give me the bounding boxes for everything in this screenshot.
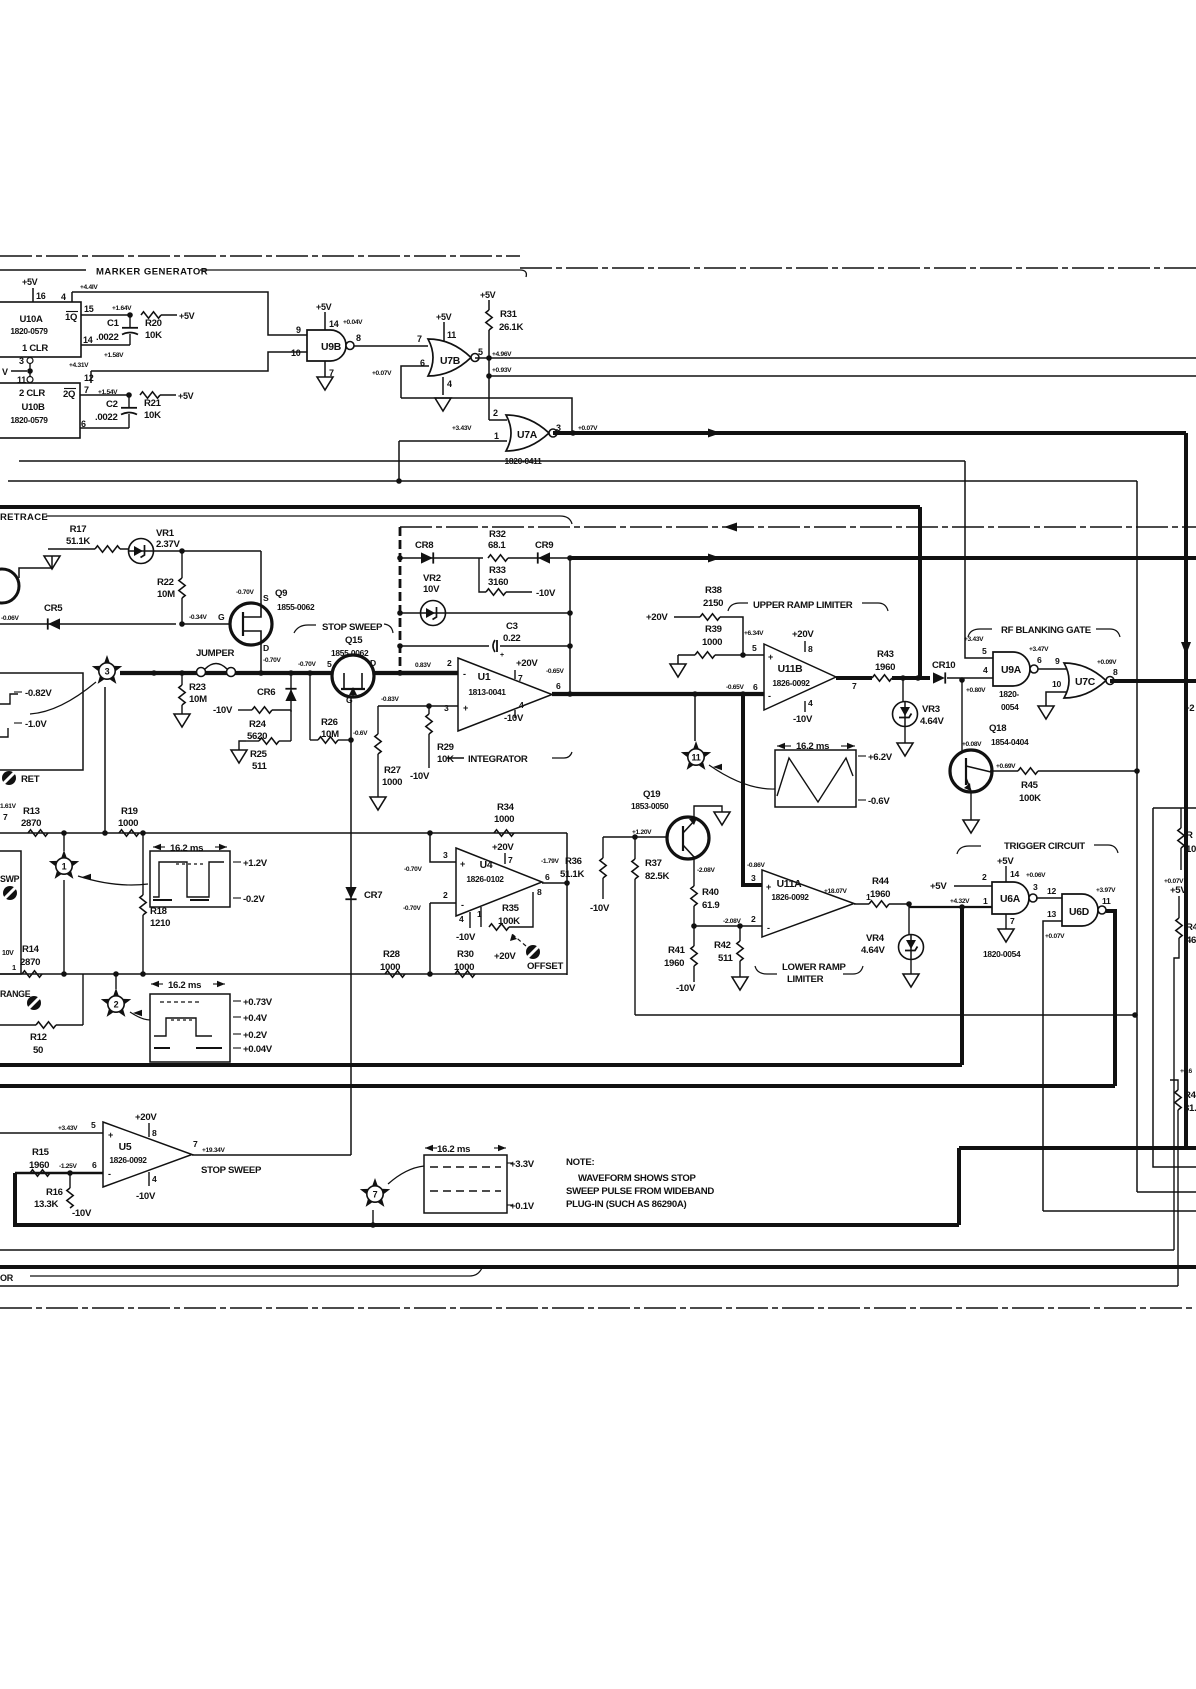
svg-text:16.2 ms: 16.2 ms <box>437 1144 470 1155</box>
svg-text:U10A: U10A <box>19 314 43 325</box>
svg-text:7: 7 <box>373 1189 378 1199</box>
svg-text:-0.70V: -0.70V <box>404 866 423 873</box>
thick line y1086 <box>0 1084 1115 1088</box>
svg-text:1.61V: 1.61V <box>0 803 17 810</box>
svg-text:R21: R21 <box>144 398 162 409</box>
offset adjust <box>526 945 540 959</box>
node dot bus2 x430 <box>427 971 433 977</box>
svg-text:VR1: VR1 <box>156 528 175 539</box>
svg-text:2870: 2870 <box>20 957 40 968</box>
node dot U4 out <box>564 880 570 886</box>
U7B pin 4 lead <box>442 377 444 395</box>
diode CR5 <box>0 623 176 625</box>
wire Q9 source up <box>260 551 262 603</box>
arrow on U7A output line <box>708 429 721 438</box>
U7A feedback loop wire <box>401 398 572 433</box>
svg-text:2.37V: 2.37V <box>156 539 180 550</box>
diode CR10 <box>933 672 945 683</box>
Q19 emitter R40 <box>693 856 695 886</box>
svg-text:RANGE: RANGE <box>0 989 31 999</box>
svg-text:6: 6 <box>81 419 86 429</box>
svg-text:16.2 ms: 16.2 ms <box>796 741 829 752</box>
U7A pin 1 wire <box>399 440 507 442</box>
resistor R43 <box>836 676 872 680</box>
zener VR1 <box>129 539 154 564</box>
svg-text:+20V: +20V <box>646 612 668 623</box>
svg-text:51.1K: 51.1K <box>66 536 90 547</box>
wire VR2 line <box>400 612 420 614</box>
Q19 collector bracket ground <box>694 806 722 820</box>
svg-text:10: 10 <box>1052 679 1061 689</box>
wire +1.20V base line <box>603 836 667 838</box>
resistor R12 <box>0 1024 36 1026</box>
svg-text:1826-0092: 1826-0092 <box>771 892 809 902</box>
svg-text:5: 5 <box>327 659 332 669</box>
svg-text:1 CLR: 1 CLR <box>22 343 48 354</box>
svg-text:+5V: +5V <box>480 290 496 300</box>
svg-text:CR8: CR8 <box>415 540 434 551</box>
svg-text:+0.04V: +0.04V <box>343 319 363 326</box>
svg-text:68.1: 68.1 <box>488 540 506 551</box>
thin line y1250 <box>0 1249 1174 1251</box>
dash-dot line y527 <box>400 526 1196 528</box>
svg-text:C1: C1 <box>107 318 120 329</box>
resistor R15 on pin6 wire <box>30 1170 50 1176</box>
retrace label line <box>46 516 572 524</box>
wire U6A out to U6D <box>1036 897 1062 899</box>
node dot bus1 x143 <box>140 830 146 836</box>
svg-text:R25: R25 <box>250 749 268 760</box>
thick line y1065 <box>0 1063 962 1067</box>
node dot x400 y558 <box>397 555 403 561</box>
box4 labels <box>507 1162 513 1164</box>
svg-text:4: 4 <box>447 379 452 389</box>
svg-text:SWEEP PULSE FROM WIDEBAND: SWEEP PULSE FROM WIDEBAND <box>566 1186 714 1197</box>
node dot U1 out x743 <box>740 691 746 697</box>
resistor R19 on bus1 <box>119 830 139 836</box>
svg-text:Q18: Q18 <box>989 723 1007 734</box>
long thin line y481 <box>8 480 1137 482</box>
Q18 collector wire to R45 <box>990 770 1018 772</box>
diode CR8 <box>400 557 483 559</box>
svg-text:1826-0102: 1826-0102 <box>466 874 504 884</box>
node dot C1/R20 <box>127 312 133 318</box>
thick vertical x920 <box>918 507 922 678</box>
svg-text:10M: 10M <box>157 589 175 600</box>
svg-text:R37: R37 <box>645 858 662 869</box>
svg-text:+1.2V: +1.2V <box>243 858 268 869</box>
svg-text:-: - <box>461 900 464 910</box>
svg-text:R34: R34 <box>497 802 515 813</box>
resistor R right edge top <box>1180 808 1182 828</box>
U4 pin2 vertical to R28/R30 <box>429 903 431 974</box>
svg-text:+20V: +20V <box>494 951 516 962</box>
box2 labels <box>233 1000 241 1002</box>
svg-text:1000: 1000 <box>494 814 514 825</box>
svg-text:U7C: U7C <box>1075 677 1096 688</box>
node dot R29 <box>426 703 432 709</box>
svg-text:1210: 1210 <box>150 918 170 929</box>
svg-text:R13: R13 <box>23 806 40 817</box>
svg-text:5: 5 <box>478 347 483 357</box>
svg-text:U11A: U11A <box>777 879 803 890</box>
node dot x570 y558 <box>567 555 573 561</box>
thin line y1286 <box>0 1285 1178 1287</box>
svg-text:+4.32V: +4.32V <box>950 898 970 905</box>
svg-text:-: - <box>463 669 466 679</box>
svg-text:1: 1 <box>12 963 16 972</box>
U1 pin 2 thick wire <box>400 671 458 675</box>
RET adjust symbol <box>2 771 16 785</box>
svg-text:+0.69V: +0.69V <box>996 763 1016 770</box>
resistor R23 <box>181 673 183 685</box>
node dot bus1 x430 <box>427 830 433 836</box>
node dot bus2 x143 <box>140 971 146 977</box>
svg-text:+: + <box>768 652 773 662</box>
svg-text:NOTE:: NOTE: <box>566 1157 594 1168</box>
wire U7B pin6 feedback <box>401 366 429 398</box>
marker generator section label line <box>0 269 86 271</box>
wire U9A out to U7C <box>1038 668 1066 670</box>
svg-text:9: 9 <box>1055 656 1060 666</box>
svg-text:RF BLANKING GATE: RF BLANKING GATE <box>1001 625 1092 636</box>
svg-text:+20V: +20V <box>492 842 514 853</box>
svg-text:14: 14 <box>83 335 93 345</box>
svg-text:1: 1 <box>62 861 67 871</box>
svg-text:-: - <box>768 691 771 701</box>
node dot R43 x918 <box>915 675 921 681</box>
transistor Q19 <box>667 817 709 859</box>
wire U7A output thick line <box>553 431 1186 435</box>
thick line y1148 right <box>959 1146 1196 1150</box>
ground below VR3 <box>897 743 913 756</box>
svg-text:10: 10 <box>291 348 301 358</box>
svg-text:+0.06V: +0.06V <box>1026 872 1046 879</box>
triangle waveform <box>777 758 853 802</box>
svg-text:OFFSET: OFFSET <box>527 961 563 972</box>
resistor R39 <box>678 654 695 656</box>
svg-text:+0.73V: +0.73V <box>243 997 273 1008</box>
svg-text:+0.08V: +0.08V <box>962 741 982 748</box>
svg-text:V: V <box>2 367 8 377</box>
svg-text:-0.2V: -0.2V <box>243 894 265 905</box>
node dot R15/R16 <box>67 1170 73 1176</box>
svg-text:13.3K: 13.3K <box>34 1199 58 1210</box>
svg-text:G: G <box>218 612 225 622</box>
gate U9A body <box>993 652 1030 686</box>
svg-text:U11B: U11B <box>778 664 804 675</box>
dashed waveform levels <box>430 1166 501 1168</box>
U4 pin4 -10V <box>469 912 471 928</box>
svg-text:10: 10 <box>1186 844 1196 855</box>
svg-text:16: 16 <box>36 291 46 301</box>
svg-text:+3.97V: +3.97V <box>1096 887 1116 894</box>
star 3 callout arc <box>30 682 96 714</box>
svg-text:U6D: U6D <box>1069 907 1090 918</box>
U6A pin 7 ground <box>1005 914 1007 929</box>
svg-text:R39: R39 <box>705 624 722 635</box>
wire U10A pin4 to U9B pin9 <box>72 292 307 335</box>
svg-text:R27: R27 <box>384 765 401 776</box>
resistor R45 <box>1018 768 1038 774</box>
op-amp U5 <box>103 1122 192 1187</box>
square waveform <box>153 862 224 897</box>
svg-text:1000: 1000 <box>702 637 722 648</box>
svg-text:4.64V: 4.64V <box>861 945 885 956</box>
svg-text:-1.0V: -1.0V <box>25 719 47 730</box>
svg-text:12: 12 <box>1047 886 1056 896</box>
node dot pin3/11 <box>27 368 33 374</box>
gate U7C body <box>1064 663 1106 698</box>
U11A pin 2 wire <box>694 925 762 927</box>
node dot R43 x903 <box>900 675 906 681</box>
svg-text:2: 2 <box>443 890 448 900</box>
marker generator label line right <box>200 270 526 277</box>
node dot bus2 x64 <box>61 971 67 977</box>
svg-text:1820-0579: 1820-0579 <box>10 415 48 425</box>
svg-text:14: 14 <box>329 319 339 329</box>
wire U7B output line <box>475 357 1196 359</box>
U5 pin 5 wire <box>0 1132 103 1134</box>
svg-text:S: S <box>263 593 269 603</box>
svg-text:U4: U4 <box>480 860 493 871</box>
svg-text:-10V: -10V <box>504 713 524 724</box>
zener VR3 <box>902 678 904 701</box>
svg-text:+0.09V: +0.09V <box>1097 659 1117 666</box>
svg-text:R12: R12 <box>30 1032 47 1043</box>
svg-text:+1.58V: +1.58V <box>104 352 124 359</box>
svg-text:7: 7 <box>1010 916 1015 926</box>
svg-text:LIMITER: LIMITER <box>787 974 824 985</box>
svg-text:R43: R43 <box>877 649 894 660</box>
star 11 callout arc <box>709 765 775 789</box>
U10A pin 4 wire <box>71 292 73 302</box>
waveform box square wave <box>150 851 230 907</box>
star3 stem to bus1 <box>104 687 106 833</box>
svg-text:Q9: Q9 <box>275 588 287 599</box>
U10B pin 12 wire <box>90 371 92 383</box>
svg-text:R4: R4 <box>1184 1090 1196 1101</box>
svg-text:1000: 1000 <box>382 777 402 788</box>
label INTEGRATOR <box>447 757 464 759</box>
resistor R16 <box>69 1173 71 1188</box>
node dot y1015 right <box>1132 1012 1138 1018</box>
node 2 star <box>101 988 131 1017</box>
node dot R45 right <box>1134 768 1140 774</box>
svg-text:-0.06V: -0.06V <box>1 615 20 622</box>
svg-text:7: 7 <box>3 812 8 822</box>
svg-text:G: G <box>346 695 353 705</box>
U11A output wire <box>854 903 869 905</box>
svg-text:10K: 10K <box>437 754 454 765</box>
resistor R30 on bus2 <box>455 971 475 977</box>
transistor Q18 <box>961 680 963 752</box>
star1 stem <box>63 833 65 851</box>
node 1 star <box>49 850 79 879</box>
stair waveform <box>154 1018 212 1036</box>
node dot R42 top <box>737 923 743 929</box>
svg-text:Q15: Q15 <box>345 635 363 646</box>
resistor R26 <box>318 737 338 743</box>
U1 pin 3 wire <box>378 705 458 707</box>
star1 to bus2 <box>63 880 65 974</box>
svg-text:-0.6V: -0.6V <box>353 730 368 737</box>
svg-text:U5: U5 <box>119 1142 132 1153</box>
svg-text:R28: R28 <box>383 949 401 960</box>
svg-text:R15: R15 <box>32 1147 50 1158</box>
svg-text:-10V: -10V <box>72 1208 92 1219</box>
resistor R18 <box>142 833 144 895</box>
svg-text:MARKER GENERATOR: MARKER GENERATOR <box>96 267 208 278</box>
U4 output wire <box>542 882 567 884</box>
svg-text:-0.83V: -0.83V <box>381 696 400 703</box>
svg-text:1960: 1960 <box>875 662 895 673</box>
U5 pin 6 thick wire <box>15 1172 103 1175</box>
svg-text:U6A: U6A <box>1000 894 1021 905</box>
op-amp U11A <box>762 870 854 937</box>
svg-text:2Q: 2Q <box>63 389 75 400</box>
U5 feedback thick loop <box>15 1173 959 1225</box>
svg-text:LOWER RAMP: LOWER RAMP <box>782 962 847 973</box>
resistor R20 <box>141 312 161 318</box>
svg-text:OR: OR <box>0 1273 14 1283</box>
svg-text:1: 1 <box>983 896 988 906</box>
resistor R28 on bus2 <box>385 971 405 977</box>
resistor R21 <box>140 392 160 398</box>
svg-text:R23: R23 <box>189 682 206 693</box>
svg-text:CR9: CR9 <box>535 540 553 551</box>
svg-text:1855-0062: 1855-0062 <box>277 602 315 612</box>
capacitor C1 <box>129 315 131 327</box>
wire R44 junction to U6A <box>908 904 910 907</box>
svg-text:+: + <box>460 859 465 869</box>
star 7 callout arc <box>388 1166 424 1184</box>
svg-text:16.2 ms: 16.2 ms <box>170 843 203 854</box>
svg-text:CR7: CR7 <box>364 890 382 901</box>
svg-text:R17: R17 <box>70 524 87 535</box>
svg-text:+5V: +5V <box>1170 885 1187 896</box>
svg-text:2: 2 <box>493 408 498 418</box>
wire +3.43V drop to bus <box>398 441 400 481</box>
svg-text:R16: R16 <box>46 1187 63 1198</box>
svg-text:-10V: -10V <box>536 588 556 599</box>
svg-text:JUMPER: JUMPER <box>196 648 235 659</box>
svg-text:10V: 10V <box>2 950 14 957</box>
dash-dot line y1308 <box>0 1307 1196 1309</box>
resistor R44 <box>869 901 889 907</box>
svg-text:1960: 1960 <box>870 889 890 900</box>
thin line y1015 <box>635 1014 1135 1016</box>
U1 pin 4 -10V <box>514 710 516 718</box>
Q18 emitter ground <box>970 792 972 820</box>
IC U10B box <box>0 383 80 438</box>
U10B pin 7 wire <box>80 394 129 396</box>
svg-text:UPPER RAMP LIMITER: UPPER RAMP LIMITER <box>753 600 853 611</box>
svg-text:10M: 10M <box>189 694 207 705</box>
svg-text:+18.07V: +18.07V <box>824 888 848 895</box>
node dot R31 bottom <box>486 373 492 379</box>
svg-text:4: 4 <box>983 665 988 675</box>
svg-text:+0.07V: +0.07V <box>578 425 598 432</box>
svg-text:2: 2 <box>751 914 756 924</box>
JFET Q9 <box>230 603 272 645</box>
svg-text:3: 3 <box>751 873 756 883</box>
waveform steps in left box <box>0 694 18 704</box>
svg-text:R30: R30 <box>457 949 474 960</box>
node dot gate line <box>179 621 185 627</box>
thick line y507 <box>0 505 920 509</box>
ground below R27 <box>370 797 386 810</box>
svg-text:VR4: VR4 <box>866 933 885 944</box>
svg-text:16.2 ms: 16.2 ms <box>168 980 201 991</box>
svg-text:8: 8 <box>152 1128 157 1138</box>
label STOP SWEEP <box>294 625 316 633</box>
svg-text:U9B: U9B <box>321 342 342 353</box>
resistor R4x right edge <box>1170 1080 1178 1090</box>
svg-text:CR6: CR6 <box>257 687 275 698</box>
wire R20 to +5V <box>161 314 177 316</box>
ground below U7C pin10 <box>1038 706 1054 719</box>
svg-text:-2.08V: -2.08V <box>697 867 716 874</box>
svg-text:R20: R20 <box>145 318 162 329</box>
svg-text:6: 6 <box>1037 655 1042 665</box>
svg-text:8: 8 <box>537 887 542 897</box>
svg-text:+5V: +5V <box>997 856 1014 867</box>
gate arrow into Q9 <box>232 620 243 629</box>
svg-text:8: 8 <box>1113 667 1118 677</box>
svg-text:R40: R40 <box>702 887 719 898</box>
svg-text:R4: R4 <box>1186 922 1196 933</box>
node dot bus2 x116 <box>113 971 119 977</box>
svg-text:U10B: U10B <box>21 402 45 413</box>
node dot U9A pin4 <box>959 677 965 683</box>
resistor R38 <box>700 614 720 620</box>
svg-text:+0.07V: +0.07V <box>1045 933 1065 940</box>
svg-text:0.83V: 0.83V <box>415 662 432 669</box>
svg-text:26.1K: 26.1K <box>499 322 523 333</box>
JFET Q15 stop sweep <box>332 655 374 697</box>
svg-text:C2: C2 <box>106 399 118 410</box>
node dot R31/output5 <box>486 355 492 361</box>
resistor R36 <box>602 837 604 858</box>
node dot x400 y646 <box>397 643 403 649</box>
resistor R41 <box>693 926 695 946</box>
small transistor circle cut at left edge <box>0 569 19 603</box>
svg-text:4: 4 <box>459 914 464 924</box>
svg-text:R26: R26 <box>321 717 338 728</box>
svg-text:11: 11 <box>692 752 701 762</box>
svg-text:51.1K: 51.1K <box>560 869 584 880</box>
svg-text:1000: 1000 <box>118 818 138 829</box>
svg-text:-10V: -10V <box>410 771 430 782</box>
svg-text:VR3: VR3 <box>922 704 940 715</box>
svg-text:R41: R41 <box>668 945 686 956</box>
svg-text:+0.04V: +0.04V <box>243 1044 273 1055</box>
svg-text:7: 7 <box>852 681 857 691</box>
U7A pin 2 wire <box>489 419 507 421</box>
waveform box triangle wave <box>775 750 856 807</box>
svg-text:6: 6 <box>556 681 561 691</box>
node dot bus1 x105 <box>102 830 108 836</box>
wire U10B pin12 to U9B pin10 <box>91 352 307 371</box>
svg-text:+3.3V: +3.3V <box>510 1159 535 1170</box>
wire U9B output 8 to U7B pin 7 <box>355 345 429 347</box>
down arrow on right-edge vertical <box>1181 642 1191 655</box>
svg-text:+0.80V: +0.80V <box>966 687 986 694</box>
node dot bus x310 <box>307 670 313 676</box>
op-amp U4 <box>456 848 542 916</box>
svg-text:100K: 100K <box>498 916 520 927</box>
